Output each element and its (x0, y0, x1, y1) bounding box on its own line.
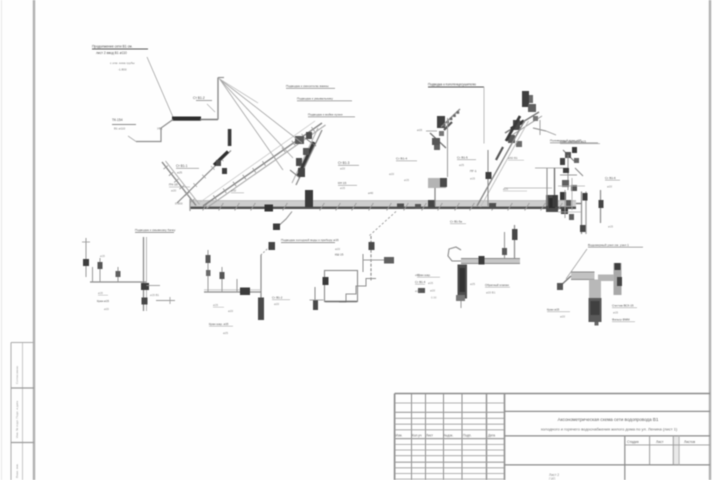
cluster CL3 diagonal band (505, 112, 539, 133)
fitting: dark segment on main line x267 (265, 205, 274, 212)
B5 right arm (598, 275, 614, 282)
pipe: right vertical V2 (600, 190, 602, 223)
B1 left vertical 2 (99, 258, 101, 282)
cluster CL2 checker diagonal (441, 109, 460, 127)
svg-text:ø20 В1: ø20 В1 (486, 291, 496, 295)
svg-text:ø25: ø25 (177, 171, 183, 175)
svg-text:Стадия: Стадия (627, 440, 639, 444)
svg-text:Кран ø15: Кран ø15 (547, 308, 560, 312)
right cluster extra blobs (572, 147, 577, 153)
svg-text:Изм.: Изм. (396, 434, 403, 438)
svg-text:ø40: ø40 (368, 191, 374, 195)
B5 meter foot (595, 322, 599, 326)
pipe: riser Ст В1-2 vertical (217, 78, 219, 120)
B3 vertical from diagonal (370, 236, 372, 281)
svg-text:Кол.уч: Кол.уч (412, 434, 422, 438)
svg-text:Счетчик ВСХ-15: Счетчик ВСХ-15 (612, 304, 634, 308)
hatch on D1 (213, 195, 216, 199)
svg-text:ø15: ø15 (428, 281, 433, 285)
svg-text:ø20: ø20 (415, 289, 420, 293)
svg-text:Подводка к умывальнику: Подводка к умывальнику (297, 97, 333, 101)
B3 staircase down-left (339, 279, 376, 303)
B1 left vertical 1 (92, 267, 94, 282)
svg-text:Ст В1-5: Ст В1-5 (457, 156, 468, 160)
svg-text:ø50 В1: ø50 В1 (508, 156, 518, 160)
V1 dark blobs (583, 193, 588, 201)
cluster CL2 dark blob (437, 116, 445, 128)
svg-text:Подводка к мойке кухни: Подводка к мойке кухни (308, 113, 343, 117)
svg-text:Подводка к смывному бачку: Подводка к смывному бачку (135, 228, 176, 232)
svg-text:0.00: 0.00 (431, 296, 437, 300)
sheet left outer edge (1, 0, 3, 480)
svg-text:Кран шаровой ø15: Кран шаровой ø15 (560, 140, 586, 144)
B4 horizontal pipe (461, 259, 520, 264)
pipe: cluster CL1 branch diagonal (296, 130, 322, 185)
B1 riser vertical thick (143, 237, 145, 311)
cluster above main line x430-448 (428, 178, 446, 188)
svg-text:Инв. № подл. Подп. и дата: Инв. № подл. Подп. и дата (15, 400, 19, 438)
svg-text:Ст В1-3: Ст В1-3 (338, 161, 350, 165)
B2 dark fitting under label (269, 242, 276, 250)
svg-text:ø20: ø20 (340, 167, 345, 171)
title block stadia header underline (625, 444, 710, 446)
svg-text:ø15: ø15 (608, 225, 613, 229)
B4 central dark column (458, 265, 468, 299)
B1 horizontal pipe (90, 281, 146, 283)
svg-text:ø25: ø25 (503, 187, 508, 191)
cluster CL3 blobs (513, 120, 520, 130)
svg-text:Взам. инв.: Взам. инв. (15, 463, 19, 478)
svg-text:ø20: ø20 (171, 189, 177, 193)
riser stub dark x230 (228, 129, 232, 146)
leader from label to B5 (566, 249, 587, 279)
svg-text:Ст В1-5а: Ст В1-5а (450, 220, 462, 224)
svg-text:ø15: ø15 (415, 273, 420, 277)
svg-text:ø20: ø20 (607, 185, 612, 189)
B2 left vertical 3 (236, 279, 238, 292)
svg-text:ПГ-1: ПГ-1 (470, 169, 477, 173)
main line hatch ticks (203, 203, 208, 211)
B2 riser vertical (260, 255, 262, 320)
fitting: dark elbow x430 (428, 200, 435, 207)
B3 top-right arm (362, 254, 364, 272)
svg-text:ø15: ø15 (213, 303, 218, 307)
fitting: dark dash x400 (397, 204, 404, 210)
fitting: dark riser stub x308 (305, 190, 313, 207)
svg-text:Подводка к смесителю ванны: Подводка к смесителю ванны (286, 84, 329, 88)
svg-text:ø20: ø20 (274, 302, 279, 306)
svg-text:ø20: ø20 (228, 309, 233, 313)
pipe: main line light upper edge (190, 200, 576, 202)
svg-text:холодного и горячего водоснабж: холодного и горячего водоснабжения жилог… (541, 427, 678, 432)
B1 right tick 2 (156, 300, 175, 302)
right cluster misc strokes (563, 150, 574, 161)
drain Z detail below main line (274, 212, 292, 227)
pipe: step from TK up to entry bar (136, 120, 173, 142)
svg-text:0.000: 0.000 (175, 202, 183, 206)
svg-text:ø25: ø25 (223, 331, 228, 335)
frame left border line (33, 0, 35, 480)
svg-text:ø20: ø20 (430, 289, 435, 293)
title block right section horizontal lines (505, 410, 711, 412)
pipe: main line dark lower edge (190, 207, 576, 209)
svg-text:Дата: Дата (488, 434, 495, 438)
svg-text:ø15: ø15 (98, 291, 103, 295)
pipe: riser x488 (487, 150, 489, 206)
B3 small left vertical with tap (314, 287, 316, 310)
B5 water meter dark box (589, 298, 602, 322)
svg-text:Ст В1-4: Ст В1-4 (396, 157, 407, 161)
svg-text:Ст В1-2: Ст В1-2 (193, 96, 205, 100)
leader fan ray 4 short (219, 79, 258, 104)
pipe: riser top tick (218, 77, 224, 79)
leader line from note to pipe (147, 57, 173, 117)
svg-text:ПЧ 15: ПЧ 15 (169, 183, 178, 187)
bracket vertical line (483, 87, 485, 144)
B3 dark blob on loop left (323, 277, 329, 285)
svg-text:ø25: ø25 (470, 282, 475, 286)
svg-text:ø25: ø25 (459, 163, 464, 167)
svg-text:В1 ø110: В1 ø110 (114, 127, 125, 131)
svg-text:Лист: Лист (426, 434, 433, 438)
B1 tap symbol (85, 238, 87, 277)
leader fan ray 2 (220, 79, 294, 158)
svg-text:ø20: ø20 (389, 172, 394, 176)
B4 column foot (456, 295, 465, 301)
svg-text:Фильтр ФММ: Фильтр ФММ (612, 318, 630, 322)
cluster CL2 lower strokes (430, 133, 446, 148)
svg-text:Ст В1-1: Ст В1-1 (176, 164, 188, 168)
B1 left vertical 3 (117, 267, 119, 282)
svg-text:ø15: ø15 (100, 254, 105, 258)
leader fan ray 3 (220, 80, 283, 171)
pipe: diagonal D2 with dark bar (177, 151, 231, 204)
title block outer border (395, 393, 710, 395)
pipe: D1 third strand (199, 121, 315, 203)
pipe: main line start tick (189, 199, 191, 211)
svg-text:ø20: ø20 (104, 307, 109, 311)
fitting: dark cluster on main line x550 (546, 195, 558, 212)
B2 riser dark lower (258, 298, 264, 321)
B5 right column (614, 263, 622, 295)
pipe: dark entry bar (172, 117, 201, 121)
right cluster horizontal ticks (558, 185, 585, 187)
svg-text:КН 15: КН 15 (338, 181, 347, 185)
B2 left vertical 1 (207, 250, 209, 292)
svg-text:№док.: №док. (444, 434, 453, 438)
hatch on D3 (164, 166, 168, 169)
B4 hook left (448, 247, 461, 261)
svg-text:Обратный клапан: Обратный клапан (485, 283, 509, 287)
pipe: upper rail y168 (535, 167, 568, 169)
B5 left step blobs (558, 276, 571, 288)
svg-text:ø15: ø15 (340, 186, 345, 190)
svg-text:Лист: Лист (656, 440, 664, 444)
B5 horizontal bar (571, 272, 595, 280)
cluster CL3 riser dark (522, 91, 529, 107)
B1 riser dark blobs (141, 283, 149, 290)
leader fan ray 1 (219, 79, 302, 144)
svg-text:Продолжение сети В1 см.: Продолжение сети В1 см. (92, 45, 133, 49)
title block stadia column lines (624, 436, 626, 480)
B1 right tick 1 (147, 285, 161, 287)
svg-text:Подп.: Подп. (463, 434, 472, 438)
pipe: riser from CL2 down to main (447, 118, 449, 177)
title block left-grid vertical lines (411, 394, 413, 480)
svg-text:ø15: ø15 (417, 128, 423, 132)
pipe: main line to V1 connection (576, 203, 581, 205)
pipe: long diagonal D1 double (203, 123, 322, 206)
drain dark blob (273, 224, 280, 231)
B4 right vertical 1 (514, 225, 516, 263)
svg-text:Ст В1-2: Ст В1-2 (272, 296, 283, 300)
pipe: right end thick vertical V1 (581, 192, 583, 235)
svg-text:ТК-154: ТК-154 (112, 118, 123, 122)
pipe: horizontal from entry to riser (200, 119, 218, 121)
B3 dashed leader from main line (369, 212, 396, 237)
B2 left vertical 2 (221, 267, 223, 292)
svg-text:с отм. низа трубы: с отм. низа трубы (110, 61, 135, 65)
svg-text:лист 2 ввод В1 ø110: лист 2 ввод В1 ø110 (96, 51, 127, 55)
svg-text:ø15: ø15 (613, 311, 618, 315)
cluster CL1 side strokes (290, 170, 300, 178)
pipe: main line body fill (190, 201, 576, 208)
fitting: dark dash x490 (489, 203, 496, 209)
title block left-grid row lines (395, 402, 505, 404)
svg-text:Ст В1-6: Ст В1-6 (605, 176, 616, 180)
dark segments on D4 (506, 116, 520, 141)
B4 right vertical 2 (504, 232, 506, 261)
left stamp column box (10, 343, 12, 480)
B3 loop bottom dark line (325, 301, 357, 303)
B2 horizontal pipe (204, 291, 261, 293)
pipe: big diagonal D4 (477, 120, 525, 206)
pipe: left diagonal D3 double (162, 162, 196, 206)
frame right border line (709, 0, 711, 480)
svg-text:Аксонометрическая схема сети в: Аксонометрическая схема сети водопровода… (558, 417, 659, 422)
svg-text:КШ 15: КШ 15 (335, 253, 344, 257)
svg-text:Водомерный узел см. узел 1: Водомерный узел см. узел 1 (588, 243, 629, 247)
fitting: dark dash x418 (415, 204, 421, 209)
svg-text:Ст В1-4: Ст В1-4 (415, 280, 426, 284)
B2 checker leader (261, 244, 273, 255)
dark bits left of D2 bar (216, 160, 221, 166)
svg-text:ø20: ø20 (560, 315, 565, 319)
pipe: riser x554 dark (554, 168, 556, 206)
svg-text:Кран ø15: Кран ø15 (97, 299, 109, 303)
B2 dark blob on pipe (240, 288, 250, 296)
svg-text:Согласовано: Согласовано (15, 366, 19, 384)
svg-text:ø15: ø15 (470, 177, 475, 181)
svg-text:Листов: Листов (684, 440, 695, 444)
svg-text:ø15 В1: ø15 В1 (150, 293, 159, 297)
svg-text:ø32: ø32 (231, 189, 237, 193)
svg-text:ø20: ø20 (335, 247, 340, 251)
svg-text:-1.800: -1.800 (118, 68, 127, 72)
svg-text:ø15: ø15 (404, 178, 409, 182)
svg-text:Кран шар. ø15: Кран шар. ø15 (209, 322, 229, 326)
B4 dark blob on pipe (479, 256, 485, 265)
B5 center column (589, 280, 601, 299)
pipe: riser x547 (546, 168, 548, 206)
svg-text:Подводка к полотенцесушителю: Подводка к полотенцесушителю (428, 83, 476, 87)
pipe: rail y188 (504, 187, 552, 189)
valve on riser x488 (486, 172, 492, 179)
B3 rectangle loop (325, 271, 358, 302)
svg-text:Подводка холодной воды к прибо: Подводка холодной воды к прибору ø15 (281, 238, 339, 242)
